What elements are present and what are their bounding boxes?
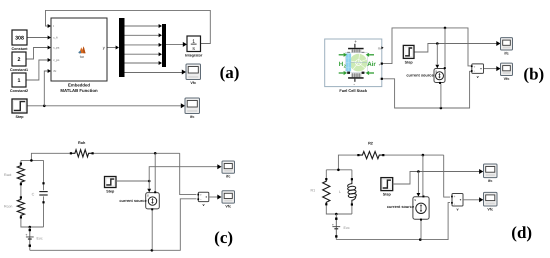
svg-text:C: C [32, 192, 35, 196]
wire right rail down to v+ (c) [180, 153, 197, 194]
wire mux to integrator [166, 43, 183, 45]
svg-text:Eoc: Eoc [344, 226, 350, 230]
svg-text:+: + [473, 65, 475, 69]
wire Ract to Rcon [20, 184, 22, 197]
svg-text:s: s [435, 70, 437, 74]
wire step out (c) [116, 180, 149, 182]
svg-text:MATLAB Function: MATLAB Function [60, 88, 98, 93]
wire step branch to fcn input 5 [44, 71, 47, 106]
junction top rail to current source + (d) [422, 154, 425, 157]
svg-text:Eoc: Eoc [37, 236, 43, 240]
svg-text:Integrator: Integrator [185, 53, 203, 57]
svg-text:ifc: ifc [488, 179, 492, 183]
DC source Eoc [25, 229, 43, 247]
wire v out to Vfc scope (c) [209, 196, 218, 198]
svg-text:R2: R2 [368, 142, 373, 146]
constant block Constant1 (2) [10, 52, 28, 72]
wire L to bottom bus [351, 205, 353, 215]
wire FC - to current source - and v- [382, 71, 472, 108]
svg-text:Embedded: Embedded [68, 82, 90, 87]
wire Step to ifc scope (b) [414, 44, 497, 53]
wire R1 to bottom bus [326, 204, 352, 214]
junction on step wire [43, 105, 46, 108]
svg-text:current source: current source [387, 204, 415, 209]
wire Eoc to bottom rail [29, 227, 31, 230]
wire Constant 308 to fcn input 2 [27, 37, 48, 39]
wire v out to Vfc scope (b) [484, 68, 498, 70]
MATLAB logo inside fcn block [79, 46, 85, 53]
wire Eoc to bottom rail (d) [335, 214, 337, 219]
svg-text:R1: R1 [311, 189, 316, 193]
wire capacitor branch top [43, 160, 45, 190]
inductor L [339, 178, 357, 205]
svg-text:Step: Step [106, 189, 115, 193]
svg-text:+: + [379, 63, 381, 67]
svg-text:y: y [103, 45, 105, 50]
resistor Ract [17, 163, 24, 186]
junction bus feed (d) [337, 169, 340, 172]
svg-text:Ract: Ract [4, 173, 11, 177]
resistor Roh [70, 150, 94, 157]
svg-text:current source: current source [406, 73, 434, 78]
junction step signal (c) [148, 180, 151, 183]
scope ifc-d [484, 164, 498, 183]
scope ifc-c [222, 161, 235, 179]
svg-text:ifc: ifc [190, 115, 194, 119]
constant block Constant2 (1) [10, 73, 28, 93]
junction step signal (b) [436, 42, 439, 45]
wire Constant1 2 to fcn input 3 [26, 48, 48, 60]
DC source Eoc [332, 218, 350, 238]
integrator block [187, 36, 201, 52]
wire demux to mux line 1 [125, 25, 159, 27]
svg-text:Fuel Cell Stack: Fuel Cell Stack [339, 88, 368, 93]
wire step branch to current source s (d) [417, 172, 419, 194]
svg-text:1: 1 [18, 78, 21, 84]
fuel cell stack block [325, 39, 384, 88]
junction bottom rail (c) [151, 249, 154, 252]
resistor R1 [323, 178, 330, 205]
scope ifc-a [185, 98, 200, 119]
voltage measurement block (d) [451, 194, 463, 212]
junction bottom rail (d) [419, 238, 422, 241]
wire demux to mux line 3 [125, 44, 159, 46]
svg-text:308: 308 [15, 35, 24, 41]
svg-text:s: s [147, 194, 149, 198]
junction top rail to current source + [154, 152, 157, 155]
voltage measurement block (b) [471, 64, 484, 79]
scope Vfc-c [222, 191, 235, 209]
capacitor C [32, 182, 48, 203]
wire demux line 6 to Vfc scope [125, 72, 183, 74]
wire FC + to current source + and v+ [382, 28, 472, 66]
scope Vfc-a [186, 64, 201, 85]
svg-text:+: + [354, 39, 357, 44]
svg-text:current source: current source [119, 198, 147, 203]
resistor Rcon [17, 196, 24, 218]
svg-text:Step: Step [383, 193, 392, 197]
controlled current source (c) [119, 191, 159, 210]
svg-text:ifc: ifc [226, 175, 230, 179]
svg-text:(d): (d) [511, 223, 532, 242]
svg-text:Vfc: Vfc [225, 205, 231, 209]
wire fcn output y to demux [107, 47, 116, 49]
wire top rail (c) [31, 153, 71, 160]
svg-text:fcn: fcn [80, 55, 85, 59]
svg-text:ifc: ifc [504, 51, 508, 55]
svg-text:c_pa: c_pa [53, 46, 60, 50]
wire step to ifc scope (c) [149, 167, 218, 181]
wire bus to R1 [325, 170, 327, 179]
svg-text:+: + [332, 223, 334, 227]
wire Step to ifc scope [27, 105, 182, 107]
wire Rcon to bottom bus [21, 217, 44, 227]
svg-text:+: + [454, 194, 456, 198]
wire current source - to bottom rail (c) [151, 210, 153, 251]
svg-text:m: m [378, 46, 381, 50]
junction + rail [444, 27, 447, 30]
wire step out (d) [393, 172, 480, 185]
svg-text:Constant2: Constant2 [10, 89, 28, 93]
wire integrator feedback to fcn input 1 [46, 10, 211, 43]
step source Step [12, 99, 27, 119]
svg-text:(b): (b) [523, 65, 544, 84]
junction - rail [440, 107, 443, 110]
scope Vfc-d [484, 192, 498, 211]
wire current source - to bottom rail (d) [420, 220, 422, 240]
wire - rail rise to current source - [440, 84, 442, 109]
svg-text:(c): (c) [214, 228, 233, 247]
svg-text:Vfc: Vfc [504, 77, 510, 81]
resistor R2 [357, 152, 384, 159]
wire + rail drop to current source + [444, 28, 446, 67]
wire demux to mux line 4 [125, 53, 159, 55]
scope Vfc-b [501, 63, 513, 81]
svg-text:+: + [25, 233, 27, 237]
controlled current source (d) [387, 195, 429, 220]
svg-text:c_po: c_po [53, 58, 60, 62]
step source Step [381, 178, 393, 197]
wire demux to mux line 2 [125, 34, 159, 36]
svg-text:Roh: Roh [78, 141, 86, 145]
wire + drop to current source (c) [154, 153, 156, 191]
RL branch top bus [326, 169, 352, 171]
svg-text:c_fi: c_fi [53, 36, 58, 40]
svg-text:s: s [414, 198, 416, 202]
wire right rail down to v+ (d) [444, 155, 450, 197]
step source Step [105, 177, 117, 194]
mux bar [162, 24, 166, 67]
svg-text:2: 2 [18, 57, 21, 63]
embedded MATLAB function block U1 [51, 18, 107, 81]
wire step branch to current source s [436, 44, 438, 65]
step source Step [403, 45, 414, 64]
svg-text:Vfc: Vfc [487, 207, 493, 211]
svg-text:Constant: Constant [12, 47, 29, 51]
wire Constant2 1 to fcn input 4 [26, 60, 48, 80]
controlled current source (b) [406, 67, 445, 84]
svg-text:Rcon: Rcon [4, 205, 12, 209]
voltage measurement block (c) [197, 192, 208, 207]
svg-text:Step: Step [405, 60, 414, 64]
wire v- down to bottom rail (c) [30, 199, 197, 251]
RC branch top bus [21, 159, 44, 161]
wire capacitor branch bottom [43, 196, 45, 227]
svg-text:(a): (a) [220, 63, 240, 82]
wire v out to Vfc scope (d) [463, 199, 480, 201]
wire demux to mux line 5 [125, 62, 159, 64]
wire bus to Ract [20, 160, 22, 163]
svg-text:Step: Step [16, 115, 25, 119]
junction step signal (d) [417, 170, 420, 173]
svg-text:Air: Air [367, 61, 376, 68]
wire top rail (d) [338, 155, 358, 170]
wire v- down to bottom rail (d) [336, 203, 450, 240]
svg-text:Constant1: Constant1 [10, 68, 28, 72]
demux bar [119, 18, 125, 77]
wire + drop to current source (d) [422, 155, 424, 195]
svg-text:Vfc: Vfc [190, 81, 196, 85]
svg-text:s: s [192, 46, 195, 52]
scope ifc-b [501, 38, 513, 56]
wire step branch to current source s (c) [148, 181, 150, 189]
svg-text:L: L [339, 190, 341, 194]
wire bus to L [351, 170, 353, 179]
junction bottom bus to Eoc [29, 226, 32, 229]
junction bottom bus to Eoc (d) [335, 213, 338, 216]
constant block Constant (308) [12, 30, 29, 51]
junction bus feed [30, 159, 33, 162]
